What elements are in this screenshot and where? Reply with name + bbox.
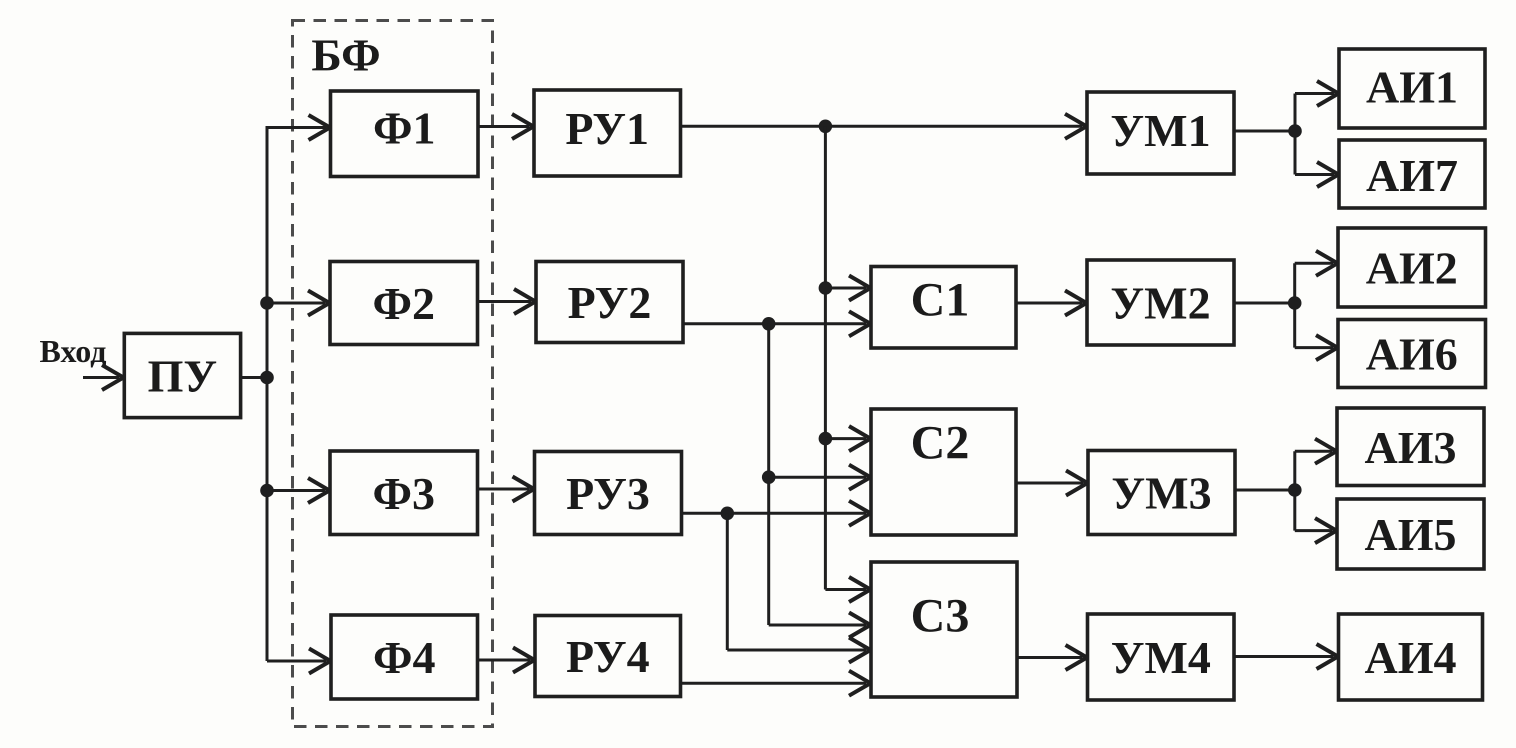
- svg-text:Ф2: Ф2: [373, 278, 436, 329]
- wire ПУ output to bus: [241, 376, 268, 379]
- wire bus from РУ1 down: [824, 126, 827, 589]
- node УМ1 fork junction: [1288, 124, 1302, 138]
- node РУ1 bus junction: [819, 120, 833, 134]
- svg-text:С1: С1: [911, 274, 970, 327]
- wire С2 to УМ3: [1016, 471, 1088, 496]
- svg-text:УМ1: УМ1: [1110, 105, 1210, 156]
- svg-text:АИ1: АИ1: [1366, 62, 1458, 113]
- wire РУ3 drop to С3 input 3: [727, 638, 870, 663]
- node УМ2 fork junction: [1288, 296, 1302, 310]
- wire left distribution bus: [266, 126, 269, 661]
- node ПУ output junction: [260, 371, 274, 385]
- svg-text:Ф1: Ф1: [373, 103, 436, 154]
- wire РУ2 drop to С3 input 2: [769, 613, 871, 638]
- svg-text:АИ2: АИ2: [1366, 243, 1458, 294]
- block Ф3: [330, 451, 478, 535]
- svg-text:АИ7: АИ7: [1366, 150, 1458, 201]
- svg-text:БФ: БФ: [311, 30, 380, 81]
- wire branch to Ф1: [267, 115, 330, 140]
- wire drop from РУ2 line down: [767, 324, 770, 625]
- block Ф1: [331, 91, 479, 177]
- block АИ5: [1337, 499, 1484, 569]
- svg-text:Ф4: Ф4: [373, 632, 436, 683]
- svg-text:АИ3: АИ3: [1365, 422, 1457, 473]
- svg-text:АИ4: АИ4: [1365, 632, 1457, 683]
- wire С1 to УМ2: [1016, 291, 1087, 316]
- block РУ2: [536, 262, 683, 343]
- wire Ф1 to РУ1: [478, 114, 534, 139]
- block РУ4: [535, 616, 681, 697]
- wire bus РУ1 to С2 input 1: [825, 426, 870, 451]
- wire РУ4 output to С3 input 4: [681, 671, 871, 696]
- wire Ф4 to РУ4: [478, 648, 535, 673]
- node bus РУ1 to С1 junction: [819, 281, 833, 295]
- svg-text:РУ2: РУ2: [568, 277, 652, 328]
- block Ф4: [331, 615, 478, 699]
- svg-text:Вход: Вход: [40, 333, 107, 369]
- dashed block-group БФ frame: [293, 21, 493, 727]
- svg-text:АИ5: АИ5: [1365, 509, 1457, 560]
- block АИ3: [1337, 408, 1484, 486]
- block АИ4: [1339, 614, 1483, 700]
- wire РУ3 output to С2 input 3: [682, 501, 871, 526]
- wire УМ1 output fork to АИ1 and АИ7: [1234, 81, 1339, 187]
- block АИ1: [1339, 49, 1485, 128]
- block АИ7: [1339, 140, 1485, 208]
- block РУ1: [534, 90, 681, 176]
- svg-text:УМ3: УМ3: [1111, 468, 1211, 519]
- wire Ф2 to РУ2: [478, 289, 536, 314]
- wire РУ2 drop to С2 input 2: [769, 465, 871, 490]
- wire Ф3 to РУ3: [478, 477, 535, 502]
- block УМ2: [1087, 260, 1234, 345]
- wire УМ2 output fork to АИ2 and АИ6: [1234, 251, 1338, 360]
- wire branch to Ф4: [267, 649, 331, 674]
- svg-text:РУ3: РУ3: [566, 468, 650, 519]
- wire branch to Ф2: [267, 291, 330, 316]
- node РУ3 drop junction: [721, 507, 735, 521]
- block УМ1: [1087, 92, 1234, 174]
- svg-text:РУ1: РУ1: [565, 103, 649, 154]
- svg-text:АИ6: АИ6: [1366, 329, 1458, 380]
- block РУ3: [535, 452, 682, 535]
- block АИ2: [1338, 228, 1486, 307]
- wire РУ2 output to С1 input 2: [683, 311, 871, 336]
- wire bus РУ1 to С1 input 1: [825, 276, 870, 301]
- node branch Ф3 junction: [260, 484, 274, 498]
- block ПУ: [124, 333, 240, 417]
- node branch Ф2 junction: [260, 296, 274, 310]
- node УМ3 fork junction: [1288, 483, 1302, 497]
- wire branch to Ф3: [267, 478, 330, 503]
- block УМ4: [1088, 614, 1235, 700]
- block Ф2: [330, 262, 478, 345]
- wire С3 to УМ4: [1017, 645, 1087, 670]
- block С2: [871, 409, 1016, 535]
- wire УМ4 to АИ4: [1234, 644, 1338, 669]
- svg-text:РУ4: РУ4: [566, 631, 650, 682]
- wire bus РУ1 to С3 input 1: [825, 577, 870, 602]
- svg-text:ПУ: ПУ: [148, 351, 218, 402]
- wire input to ПУ: [83, 365, 124, 390]
- node bus РУ1 to С2 junction: [819, 432, 833, 446]
- svg-text:С3: С3: [911, 590, 970, 643]
- block АИ6: [1338, 320, 1486, 388]
- svg-text:Ф3: Ф3: [373, 468, 436, 519]
- block УМ3: [1088, 451, 1235, 535]
- wire УМ3 output fork to АИ3 and АИ5: [1235, 439, 1337, 543]
- wire РУ1 output to УМ1: [681, 114, 1087, 139]
- block С3: [871, 562, 1017, 697]
- block С1: [871, 267, 1016, 349]
- svg-text:УМ2: УМ2: [1110, 278, 1210, 329]
- node РУ2 drop to С2 junction: [762, 470, 776, 484]
- svg-text:С2: С2: [911, 417, 970, 470]
- wire drop from РУ3 line down: [726, 513, 729, 650]
- node РУ2 drop junction: [762, 317, 776, 331]
- svg-text:УМ4: УМ4: [1111, 632, 1211, 683]
